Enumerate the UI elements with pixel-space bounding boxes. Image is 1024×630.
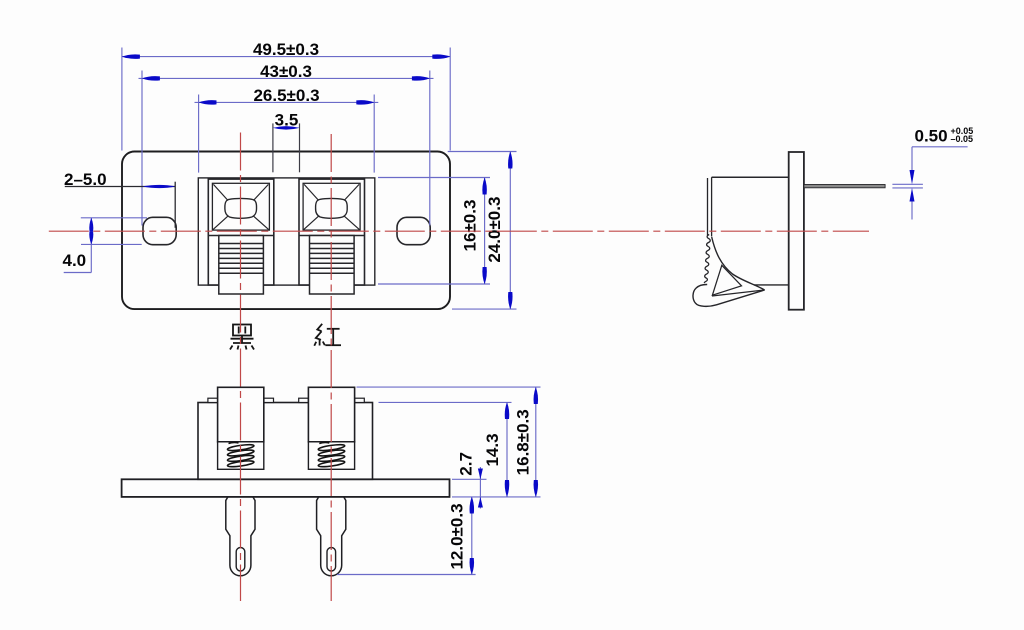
mounting hole left — [143, 217, 176, 244]
arrows dim 49.5 — [122, 54, 140, 59]
svg-text:–0.05: –0.05 — [951, 134, 974, 144]
arrows dim 26.5 — [199, 100, 217, 105]
terminal 1 (black) — [208, 179, 273, 294]
vertical centerline terminal 2 — [330, 134, 332, 601]
bottom flange bar — [122, 479, 450, 497]
dim line 16.8 — [535, 387, 537, 497]
dim 49.5 line — [122, 56, 450, 58]
spring serrated edge — [704, 235, 710, 283]
svg-text:26.5±0.3: 26.5±0.3 — [253, 86, 319, 105]
dim 4.0 — [64, 218, 147, 273]
horizontal centerline — [49, 230, 869, 232]
pin 1 — [226, 497, 255, 576]
dim 26.5 line — [195, 101, 379, 103]
arrows dim 43 — [142, 76, 160, 81]
svg-text:24.0±0.3: 24.0±0.3 — [485, 197, 504, 263]
ext cap top — [357, 386, 541, 388]
clip outer sweep — [712, 237, 765, 290]
pin 2 — [317, 497, 346, 576]
svg-text:43±0.3: 43±0.3 — [260, 62, 312, 81]
solder pin — [804, 185, 885, 188]
clip beak upper edge — [712, 290, 765, 296]
arrows 14.3 — [505, 402, 510, 419]
side body top — [712, 176, 789, 178]
svg-text:4.0: 4.0 — [63, 251, 87, 270]
dim line 14.3 — [506, 402, 508, 497]
dim 2-5.0 leader — [65, 186, 175, 188]
arrows 2.7 outside — [478, 469, 483, 480]
flange — [789, 152, 804, 310]
recess rectangle — [198, 178, 374, 285]
mounting hole right — [397, 217, 430, 244]
clip inner fold triangle — [712, 265, 741, 295]
svg-text:2–5.0: 2–5.0 — [64, 170, 107, 189]
dim 16 +-0.3 vertical — [378, 178, 490, 285]
plate outline — [122, 152, 450, 310]
svg-text:2.7: 2.7 — [456, 452, 475, 476]
svg-text:0.50: 0.50 — [915, 127, 948, 146]
side body left double line — [707, 178, 709, 236]
ext flange top — [452, 478, 487, 480]
svg-text:12.0±0.3: 12.0±0.3 — [447, 503, 466, 569]
label black terminal — [230, 325, 254, 350]
dim 24.0 +-0.3 vertical — [448, 152, 517, 310]
terminal 2 (red) — [299, 179, 365, 294]
ext housing top — [379, 401, 512, 403]
svg-text:3.5: 3.5 — [275, 111, 299, 130]
svg-text:49.5±0.3: 49.5±0.3 — [253, 40, 319, 59]
dim line 2.7 — [479, 467, 481, 509]
side body bottom — [754, 284, 789, 286]
ext flange bottom — [452, 496, 541, 498]
arrows 12.0 — [470, 497, 475, 514]
clip beak lower edge and hook — [693, 284, 765, 306]
dim 43 line — [139, 77, 434, 79]
dim 3.5 — [273, 123, 300, 172]
cap unit 1 — [208, 387, 274, 469]
arrows 16.8 — [534, 387, 539, 404]
svg-text:14.3: 14.3 — [483, 433, 502, 466]
vertical centerline terminal 1 — [240, 133, 242, 602]
cap unit 2 — [299, 387, 365, 469]
dim line 12.0 — [471, 497, 473, 575]
ext pin bottom — [337, 574, 476, 576]
dim 0.50 — [892, 147, 967, 220]
svg-text:16±0.3: 16±0.3 — [461, 200, 480, 252]
label red terminal — [314, 324, 341, 346]
svg-text:16.8±0.3: 16.8±0.3 — [514, 409, 533, 475]
bottom housing — [198, 403, 373, 480]
